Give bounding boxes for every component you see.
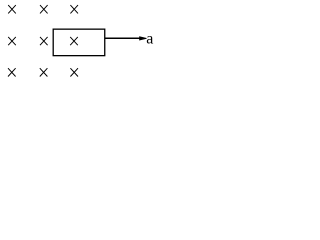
wire: arrow shaft from rectangle [105, 37, 141, 39]
field symbol X row2 col2 [40, 37, 48, 45]
svg-text:a: a [146, 30, 153, 47]
field symbol X row2 col3 (inside rectangle) [70, 37, 78, 45]
field symbol X row1 col2 [40, 5, 48, 13]
field symbol X row3 col2 [40, 68, 48, 76]
arrowhead [139, 36, 146, 40]
field symbol X row1 col3 [70, 5, 78, 13]
field symbol X row3 col3 [70, 68, 78, 76]
field symbol X row2 col1 [8, 37, 16, 45]
field symbol X row3 col1 [8, 68, 16, 76]
field symbol X (into page) row1 col1 [8, 5, 16, 13]
rectangle (object in field) [53, 29, 105, 56]
